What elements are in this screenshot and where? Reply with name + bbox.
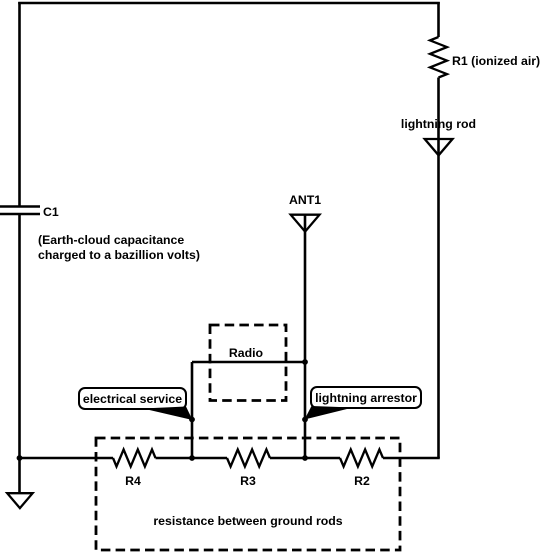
svg-text:R3: R3	[240, 474, 256, 488]
svg-text:lightning rod: lightning rod	[401, 117, 476, 131]
wire top	[18, 2, 440, 5]
svg-text:(Earth-cloud capacitance: (Earth-cloud capacitance	[38, 233, 184, 247]
resistor R2	[340, 450, 383, 467]
node ground junction	[17, 455, 23, 461]
svg-text:Radio: Radio	[229, 346, 264, 360]
node electrical service tap	[189, 417, 195, 423]
wire left upper	[18, 2, 21, 206]
ground rods box	[96, 438, 400, 550]
wire left lower	[18, 214, 21, 458]
wire radio horizontal	[192, 361, 305, 364]
callout lightning arrestor	[305, 387, 422, 420]
antenna ANT1	[291, 215, 320, 232]
wire bottom left	[18, 457, 113, 460]
wire right lower	[437, 78, 440, 459]
ground	[7, 493, 32, 508]
callout electrical service	[79, 388, 193, 420]
wire R4-R3	[156, 457, 228, 460]
capacitor C1	[0, 207, 40, 215]
resistor R3	[227, 450, 270, 467]
svg-text:C1: C1	[43, 205, 59, 219]
svg-text:ANT1: ANT1	[289, 193, 321, 207]
node ground rod left	[189, 455, 195, 461]
svg-text:electrical service: electrical service	[83, 392, 182, 406]
svg-text:R1 (ionized air): R1 (ionized air)	[452, 54, 540, 68]
svg-text:lightning arrestor: lightning arrestor	[315, 391, 417, 405]
wire ground stub	[18, 458, 21, 493]
label earth-cloud note	[38, 233, 200, 262]
lightning rod symbol	[425, 139, 453, 155]
svg-text:charged to a bazillion volts): charged to a bazillion volts)	[38, 248, 200, 262]
resistor R1	[430, 37, 447, 78]
svg-text:resistance between ground rods: resistance between ground rods	[153, 514, 342, 528]
wire electrical service vertical	[191, 362, 194, 458]
node ground rod right	[302, 455, 308, 461]
radio box	[210, 325, 286, 401]
node lightning arrestor tap	[302, 417, 308, 423]
resistor R4	[113, 450, 156, 467]
wire antenna down	[304, 214, 307, 458]
wire R3-R2	[270, 457, 340, 460]
wire right upper	[437, 2, 440, 37]
svg-text:R4: R4	[125, 474, 141, 488]
svg-text:R2: R2	[354, 474, 370, 488]
wire bottom right	[383, 457, 440, 460]
node radio-antenna junction	[302, 359, 308, 365]
